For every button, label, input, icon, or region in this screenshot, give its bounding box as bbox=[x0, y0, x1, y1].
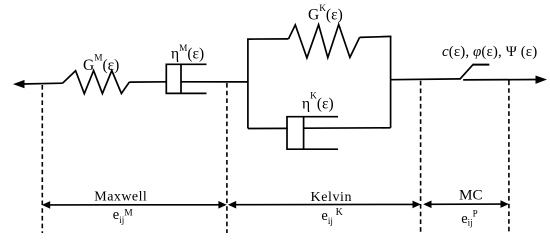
dimension line Kelvin bbox=[230, 203, 419, 205]
dashed separator 1 bbox=[41, 85, 43, 233]
wire: slider base surface to right arrow bbox=[463, 79, 541, 81]
dashed separator 4 bbox=[508, 81, 510, 234]
dashpot eta^M piston bbox=[180, 64, 182, 93]
dimension arrowhead Kelvin left bbox=[228, 201, 236, 209]
dimension arrowhead MC right bbox=[501, 200, 509, 208]
dimension arrowhead Kelvin right bbox=[413, 201, 421, 209]
svg-text:ηM(ε): ηM(ε) bbox=[171, 44, 204, 62]
wire: bottom branch left lead bbox=[248, 127, 288, 129]
svg-text:Kelvin: Kelvin bbox=[311, 190, 352, 205]
wire: dashpot K rod to box right bbox=[304, 127, 391, 129]
dimension arrowhead Maxwell left bbox=[42, 201, 50, 209]
slider MC top plate bbox=[472, 64, 489, 66]
right axis arrowhead bbox=[536, 76, 548, 84]
dashpot eta^K cylinder bbox=[287, 117, 338, 150]
dimension line Maxwell bbox=[44, 204, 225, 206]
wire: top branch right lead bbox=[360, 36, 392, 37]
svg-text:MC: MC bbox=[459, 187, 483, 204]
wire: left axis segment bbox=[22, 82, 63, 85]
dimension arrowhead MC left bbox=[423, 201, 431, 209]
dimension arrowhead Maxwell right bbox=[218, 201, 226, 209]
spring G^K bbox=[289, 25, 360, 58]
wire: box right to slider bbox=[391, 78, 460, 81]
slider MC diagonal bbox=[460, 65, 473, 80]
dimension line MC bbox=[425, 203, 507, 205]
svg-text:ηK(ε): ηK(ε) bbox=[302, 92, 334, 113]
wire: dashpot rod to Kelvin box bbox=[181, 81, 248, 83]
svg-text:c(ε), φ(ε), Ψ (ε): c(ε), φ(ε), Ψ (ε) bbox=[442, 44, 537, 60]
dashpot eta^M cylinder bbox=[166, 64, 206, 93]
dashed separator 2 bbox=[226, 83, 228, 233]
wire: spring to dashpot bbox=[129, 81, 167, 83]
wire: top branch left lead bbox=[247, 38, 288, 40]
dashed separator 3 bbox=[420, 81, 422, 233]
dashpot eta^K piston bbox=[303, 117, 305, 150]
left axis arrowhead bbox=[13, 80, 25, 88]
svg-text:Maxwell: Maxwell bbox=[94, 189, 147, 204]
spring G^M bbox=[63, 71, 130, 94]
Kelvin box right vertical bbox=[390, 36, 392, 127]
svg-text:GK(ε): GK(ε) bbox=[308, 4, 343, 24]
Kelvin box left vertical bbox=[247, 39, 249, 129]
